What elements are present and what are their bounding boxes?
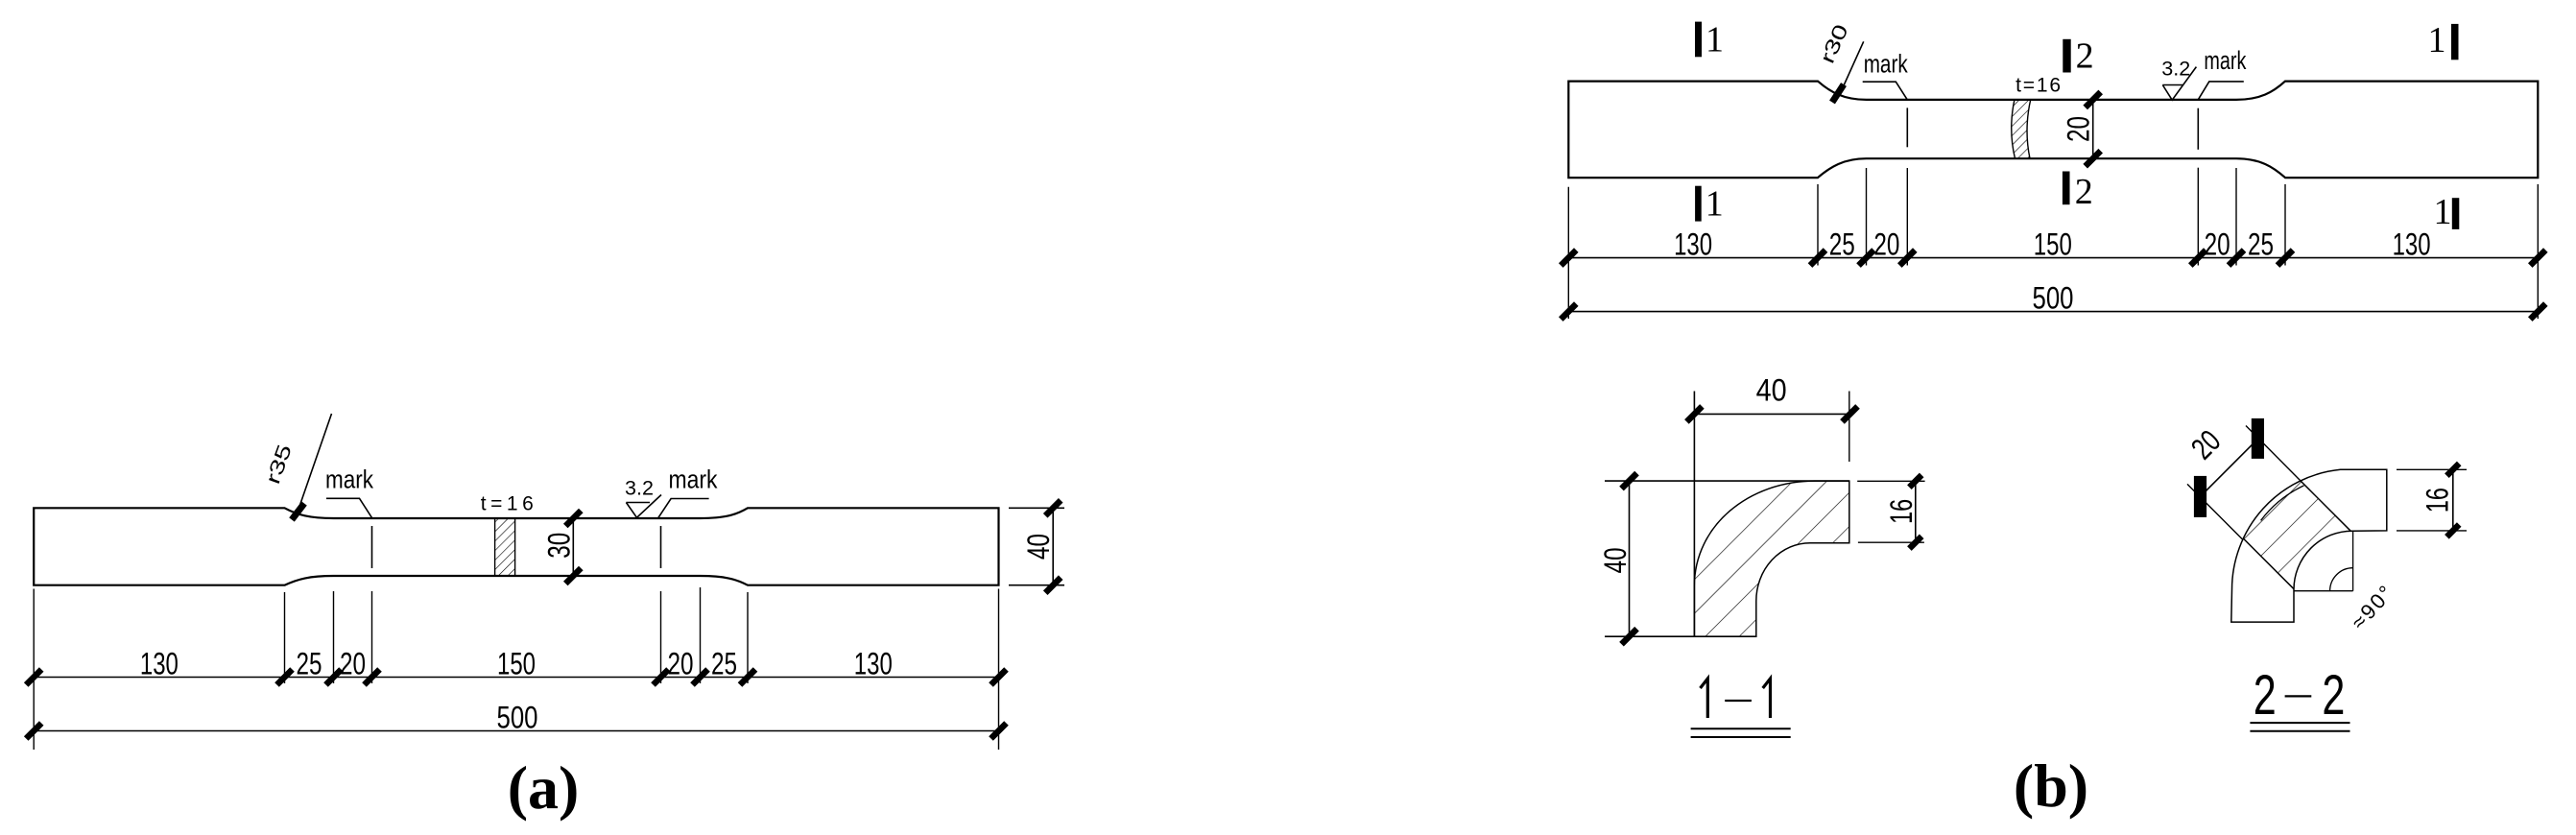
leader line r35 (a)	[298, 414, 332, 513]
dim row1 tick 7 (b)	[2530, 250, 2545, 266]
dim row1 line (a)	[34, 677, 998, 679]
section 1-1 dim 16 tick top	[1909, 475, 1921, 488]
section 2-2 dim 20 ext lower	[2187, 484, 2243, 539]
dim row1 tick 2 (b)	[1859, 250, 1874, 266]
label 1-1 underline lower	[1691, 736, 1791, 738]
vertical dim 20 line (b)	[2092, 100, 2094, 158]
section 1-1 top dim 40 tick right	[1843, 406, 1858, 421]
section 1-1 dim 16 ext top	[1857, 480, 1924, 482]
section 2-2 weld band boundary lower	[2243, 538, 2294, 589]
dim 40 tick bottom (a)	[1045, 578, 1061, 593]
section 1-1 top dim 40 ext right	[1849, 392, 1850, 463]
svg-text:mark: mark	[669, 465, 718, 494]
label 1-1 underline upper	[1691, 728, 1791, 729]
svg-text:25: 25	[1829, 227, 1855, 262]
section mark bar 2 bottom	[2063, 172, 2070, 205]
extension line (b) at x=2330	[2235, 168, 2237, 266]
svg-text:20: 20	[668, 647, 694, 681]
svg-text:2: 2	[2076, 36, 2094, 77]
section 1-1 hatched cross-section	[1694, 481, 1849, 636]
svg-text:40: 40	[1756, 373, 1787, 408]
dim row1 line (b)	[1568, 257, 2538, 259]
section 1-1 dim 16 tick bottom	[1909, 537, 1921, 549]
svg-text:20: 20	[2205, 227, 2230, 262]
dim row1 tick 5 (b)	[2229, 250, 2244, 266]
svg-text:25: 25	[711, 647, 737, 681]
svg-text:2: 2	[2322, 664, 2345, 727]
section 2-2 dim 20 ext upper	[2246, 426, 2302, 483]
section 2-2 angle arc	[2330, 568, 2353, 591]
leader line r30 (b)	[1840, 41, 1864, 94]
extension line (a) at x=35.2	[33, 589, 35, 751]
label 2-2 dash	[2285, 695, 2312, 697]
dim row1 tick 1 (b)	[1810, 250, 1825, 266]
extension line (b) at x=1944.5	[1866, 168, 1868, 266]
section 2-2 elbow outline	[2231, 469, 2387, 622]
tick on transition r30 (b)	[1832, 84, 1844, 103]
extension line (a) at x=688.5	[660, 591, 662, 683]
section 1-1 top dim 40 line	[1694, 413, 1849, 415]
svg-text:1: 1	[2434, 192, 2452, 232]
section 2-2 weld band hatch fill	[2243, 481, 2350, 589]
section 2-2 corner vertical construction	[2352, 531, 2354, 591]
dim row2 tick right (a)	[991, 724, 1007, 739]
extension line (a) at x=347.5	[333, 591, 335, 683]
dim row1 tick 6 (b)	[2278, 250, 2293, 266]
svg-text:25: 25	[297, 647, 322, 681]
tick on transition r35 (a)	[292, 504, 304, 520]
dim row2 tick left (b)	[1561, 304, 1576, 320]
surface finish symbol (b)	[2162, 67, 2196, 101]
dim 20 tick bottom (b)	[2086, 151, 2101, 166]
dim row1 tick 6 (a)	[740, 670, 755, 685]
section 1-1 left dim 40 line	[1629, 481, 1631, 636]
svg-text:20: 20	[1873, 227, 1899, 262]
section 2-2 inner fusion arc	[2261, 486, 2304, 520]
leader mark left (b)	[1863, 82, 1908, 100]
gauge mark line left (b)	[1906, 107, 1908, 147]
section 2-2 dim 16 tick bottom	[2446, 525, 2459, 537]
dim row1 tick 0 (b)	[1561, 250, 1576, 266]
section 2-2 corner horizontal construction	[2294, 590, 2353, 592]
section mark bar 1 top-left	[1695, 22, 1702, 58]
svg-text:130: 130	[1674, 227, 1712, 262]
svg-text:40: 40	[1598, 547, 1633, 573]
dim row2 line 500 (b)	[1568, 311, 2538, 313]
svg-text:16: 16	[2420, 488, 2454, 513]
extension line (a) at x=387.5	[371, 591, 373, 683]
specimen (a) dog-bone outline	[34, 508, 998, 584]
section 1-1 dim 16 line	[1915, 481, 1917, 542]
svg-text:(a): (a)	[508, 753, 580, 822]
dim row1 tick 4 (a)	[654, 670, 669, 685]
svg-text:20: 20	[2062, 116, 2096, 142]
extension line (b) at x=1634.3	[1567, 187, 1569, 319]
section 2-2 dim 20 tick upper	[2252, 418, 2264, 459]
section 2-2 dim 16 ext bottom	[2397, 530, 2467, 532]
weld seam hatch rectangle (a)	[495, 518, 515, 576]
dim 40 ext top (a)	[1009, 507, 1064, 509]
section 2-2 dim 20 tick lower	[2194, 476, 2206, 517]
dim 40 tick top (a)	[1045, 500, 1061, 515]
svg-text:150: 150	[497, 647, 536, 681]
section 1-1 top construction line	[1605, 480, 1849, 482]
extension line (b) at x=2290.3	[2197, 168, 2199, 266]
dim row1 tick 7 (a)	[991, 670, 1007, 685]
section 2-2 weld band boundary upper	[2301, 481, 2350, 531]
svg-text:2: 2	[2075, 172, 2093, 212]
section 1-1 left construction line	[1693, 392, 1695, 637]
section 1-1 left dim 40 tick top	[1622, 473, 1637, 489]
dim 30 tick top (a)	[565, 511, 581, 526]
dim row1 tick 3 (a)	[365, 670, 380, 685]
svg-text:2: 2	[2254, 664, 2277, 727]
label 1-1 first digit	[1701, 679, 1708, 718]
vertical dim 30 line (a)	[572, 518, 574, 576]
section mark bar 1 bottom-left	[1695, 186, 1702, 222]
extension line (a) at x=1040.5	[998, 589, 1000, 751]
section mark bar 1 top-right	[2451, 24, 2459, 60]
label 1-1 dash	[1725, 700, 1752, 702]
leader mark right (b)	[2198, 82, 2244, 100]
svg-text:130: 130	[140, 647, 179, 681]
leader for mark left (a)	[326, 498, 372, 517]
gauge mark line right (b)	[2197, 108, 2199, 150]
section 2-2 dim 16 ext top	[2397, 468, 2467, 470]
extension line (b) at x=2381	[2284, 184, 2286, 266]
svg-text:130: 130	[2393, 227, 2431, 262]
gauge mark line right (a)	[660, 526, 662, 568]
section mark bar 1 bottom-right	[2452, 198, 2460, 229]
svg-text:500: 500	[2033, 280, 2074, 315]
section 1-1 dim 16 ext bottom	[1858, 541, 1924, 543]
extension line (b) at x=1894	[1817, 184, 1819, 266]
dim row1 tick 1 (a)	[277, 670, 293, 685]
svg-text:25: 25	[2248, 227, 2274, 262]
gauge mark line left (a)	[371, 526, 373, 568]
svg-text:20: 20	[340, 647, 366, 681]
dim row1 tick 5 (a)	[693, 670, 708, 685]
svg-text:3.2: 3.2	[625, 478, 654, 500]
dim 30 tick bottom (a)	[565, 568, 581, 584]
dim row1 tick 3 (b)	[1899, 250, 1915, 266]
label 1-1 second digit	[1763, 679, 1771, 718]
extension line (b) at x=2644.3	[2537, 184, 2539, 319]
svg-text:130: 130	[854, 647, 893, 681]
dim row2 line 500 (a)	[34, 730, 998, 732]
svg-text:(b): (b)	[2014, 751, 2088, 820]
extension line (b) at x=1987.3	[1906, 168, 1908, 266]
dim row1 tick 4 (b)	[2190, 250, 2206, 266]
surface finish symbol (a)	[626, 495, 661, 518]
dim row2 tick left (a)	[26, 724, 41, 739]
svg-text:1: 1	[1705, 19, 1724, 60]
leader for mark right (a)	[658, 499, 709, 518]
section 1-1 bottom edge extension	[1605, 635, 1756, 637]
svg-text:mark: mark	[2204, 46, 2246, 75]
svg-text:500: 500	[497, 701, 538, 735]
label 2-2 underline upper	[2250, 722, 2349, 724]
section 2-2 dim 16 line	[2452, 469, 2454, 531]
svg-text:40: 40	[1021, 534, 1056, 560]
extension line (a) at x=729.5	[700, 587, 702, 683]
svg-text:16: 16	[1884, 499, 1919, 524]
specimen (b) dog-bone outline	[1568, 82, 2538, 179]
extension line (a) at x=779	[747, 592, 749, 683]
dim 40 ext bottom (a)	[1009, 584, 1064, 586]
section 1-1 top dim 40 tick left	[1686, 406, 1702, 421]
section 2-2 dim 20 line	[2201, 439, 2258, 496]
section 2-2 dim 16 tick top	[2446, 464, 2459, 476]
svg-text:t=16: t=16	[2015, 75, 2061, 97]
svg-text:1: 1	[2428, 20, 2446, 60]
extension line (a) at x=296.5	[284, 592, 286, 683]
dim 40 line (a)	[1052, 508, 1054, 584]
section mark bar 2 top	[2063, 39, 2070, 73]
curved weld seam hatch (b)	[2012, 100, 2031, 158]
svg-text:30: 30	[541, 533, 576, 559]
label 2-2 underline lower	[2250, 730, 2349, 732]
svg-text:3.2: 3.2	[2161, 58, 2190, 80]
section 1-1 left dim 40 tick bottom	[1622, 629, 1637, 644]
dim row1 tick 2 (a)	[326, 670, 342, 685]
dim 20 tick top (b)	[2086, 92, 2101, 107]
svg-text:1: 1	[1705, 184, 1724, 225]
dim row2 tick right (b)	[2530, 304, 2545, 320]
dim row1 tick 0 (a)	[26, 670, 41, 685]
svg-text:150: 150	[2034, 227, 2072, 262]
svg-text:mark: mark	[325, 465, 373, 494]
svg-text:mark: mark	[1864, 50, 1908, 79]
